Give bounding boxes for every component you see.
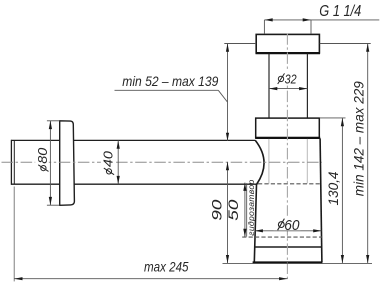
dimension Ø32 text [276,72,299,87]
svg-text:90: 90 [209,199,224,221]
svg-text:G 1 1/4: G 1 1/4 [319,3,361,20]
dimension Ø60 line [255,230,322,232]
dimension 50 line [244,183,246,237]
hidden water-top line [258,183,320,185]
svg-text:max 245: max 245 [144,259,189,275]
dimension min 142 - max 229 text [351,81,367,196]
dimension 90 text [209,199,224,221]
cup body Ø60 outline [254,140,264,262]
svg-text:min 52 – max 139: min 52 – max 139 [122,73,218,89]
cup joint line [255,246,322,248]
dimension min 52 - max 139 line [227,44,229,142]
cup bottom edge [253,261,323,264]
dimension min 52 - max 139 leader [115,89,219,91]
dimension Ø80 line [49,121,51,205]
inlet pipe Ø40 body [11,140,257,185]
dimension Ø80 text [35,141,50,173]
dimension min 142 - max 229 line [367,44,369,264]
riser tube Ø32 [268,54,270,118]
svg-text:60: 60 [284,217,300,234]
dimension 130,4 extension line [320,117,346,119]
dimension Ø32 line [269,88,307,90]
dimension Ø40 line [117,140,119,184]
dimension 50 text [226,199,241,221]
dimension Ø60 text [274,216,301,234]
hidden inner tube lines [268,139,270,184]
bottom extension line [223,262,373,264]
svg-text:50: 50 [226,199,241,221]
dimension G 1 1/4 arrows [264,18,272,21]
dimension min 52 - max 139 extension line [224,43,256,45]
dimension Ø80 extension lines [47,120,60,122]
dimension Ø40 text [100,146,115,176]
dimension max 245 extension line [13,187,15,282]
trap cap nut [256,34,319,53]
dimension min 142 - max 229 extension line [320,43,371,45]
dimension 130,4 line [341,118,343,263]
wall flange rosette Ø80 [60,121,75,206]
dimension G 1 1/4 extension lines [264,20,379,34]
vertical centerline [286,33,288,281]
dimension G 1 1/4 line with text underline [264,19,379,21]
hidden water-bottom line [242,236,322,238]
dimension 130,4 text [325,171,341,205]
water seal label text [246,179,256,235]
svg-text:гидрозатвор: гидрозатвор [246,179,256,235]
svg-text:32: 32 [285,73,297,87]
dimension 90 line [227,162,229,263]
water seal label box line [246,183,248,236]
svg-text:80: 80 [35,147,50,164]
svg-text:40: 40 [100,150,115,167]
dimension max 245 line [14,278,287,280]
svg-text:min 142 – max 229: min 142 – max 229 [351,81,367,196]
horizontal centerline [2,161,323,163]
body collar [256,118,320,138]
svg-text:130,4: 130,4 [325,171,341,205]
